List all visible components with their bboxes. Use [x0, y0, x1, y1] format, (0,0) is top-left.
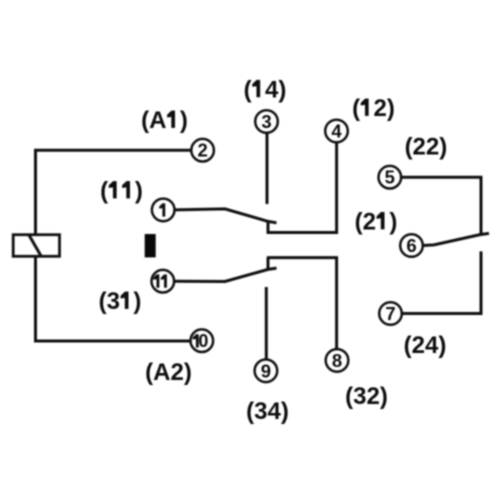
- svg-text:(22): (22): [405, 134, 448, 161]
- wire contact arm pin 6: [423, 233, 489, 245]
- wire pin 9 (34) vertical: [265, 287, 268, 360]
- svg-text:2: 2: [197, 140, 207, 161]
- svg-text:): ): [135, 178, 143, 205]
- coil K1: [13, 235, 59, 257]
- net labels: [99, 76, 448, 425]
- label (12): [352, 95, 395, 122]
- wire contact arm pin 11: [175, 268, 277, 281]
- svg-text:3: 3: [261, 111, 271, 132]
- svg-text:): ): [389, 208, 397, 235]
- svg-text:(: (: [352, 95, 360, 122]
- svg-text:(: (: [100, 178, 108, 205]
- svg-text:2): 2): [374, 95, 395, 122]
- label (14): [244, 76, 287, 103]
- node 7: [379, 302, 402, 325]
- node 11: [152, 270, 175, 293]
- wire NC path 1-12 to pin 4: [267, 222, 270, 234]
- svg-text:9: 9: [261, 360, 271, 381]
- wire pin 3 (14) vertical: [266, 133, 269, 204]
- svg-text:(A: (A: [141, 107, 166, 134]
- wire coil bottom to node A2: [36, 256, 190, 341]
- node 4: [325, 120, 348, 143]
- svg-text:(24): (24): [404, 332, 447, 359]
- svg-text:5: 5: [385, 167, 395, 188]
- wire coil top to node A1: [36, 150, 192, 235]
- node 9: [255, 360, 278, 383]
- node 2: [191, 139, 214, 162]
- pin number 1: [159, 203, 165, 216]
- svg-text:(: (: [244, 76, 252, 103]
- label (31): [99, 288, 142, 315]
- wire contact arm pin 1: [175, 209, 277, 223]
- node 3: [255, 110, 278, 133]
- mechanical actuator bar: [145, 234, 156, 257]
- svg-text:(2: (2: [355, 208, 376, 235]
- svg-text:7: 7: [385, 303, 395, 324]
- wire pin 7 (24) to junction: [402, 251, 481, 313]
- svg-text:): ): [133, 288, 141, 315]
- pin number 10: [193, 334, 199, 347]
- svg-text:4: 4: [331, 121, 342, 142]
- node 1: [152, 199, 175, 222]
- wire NC path 11-32 to pin 8: [267, 258, 270, 270]
- node 5: [379, 166, 402, 189]
- svg-text:(3: (3: [99, 288, 120, 315]
- label (21): [355, 208, 398, 235]
- svg-text:): ): [180, 107, 188, 134]
- svg-text:0: 0: [198, 331, 208, 351]
- svg-text:(32): (32): [345, 383, 388, 410]
- svg-text:4): 4): [265, 76, 286, 103]
- svg-text:8: 8: [332, 350, 342, 371]
- terminal circles: [152, 110, 423, 382]
- pin number 11: [153, 274, 159, 287]
- node 6: [400, 234, 423, 257]
- svg-text:(34): (34): [246, 398, 289, 425]
- label (A1): [141, 107, 188, 134]
- svg-text:(A2): (A2): [145, 359, 192, 386]
- svg-text:6: 6: [406, 235, 416, 256]
- node 10: [191, 329, 214, 352]
- label (11): [100, 178, 143, 205]
- node 8: [326, 349, 349, 372]
- wire pin 5 (22) to junction: [401, 177, 481, 234]
